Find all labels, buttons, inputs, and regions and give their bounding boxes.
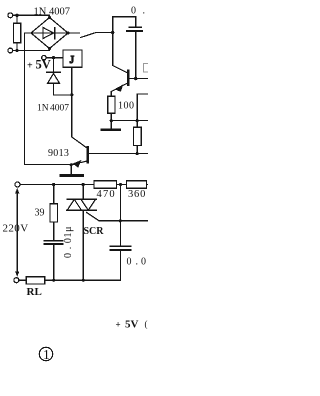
node dot — [52, 279, 55, 282]
capacitor C3 — [110, 245, 130, 247]
node dot — [15, 49, 18, 52]
svg-text:(: ( — [145, 319, 148, 329]
wire (to right edge) — [111, 120, 148, 122]
capacitor C2 0.01u — [44, 240, 62, 242]
node dot — [134, 77, 137, 80]
resistor R3 — [134, 127, 142, 145]
node dot — [70, 93, 73, 96]
switch K lever — [81, 33, 97, 38]
svg-text:0.: 0. — [131, 6, 145, 17]
SCR gate wire — [87, 212, 149, 220]
ground (Q1 emitter) — [70, 165, 72, 175]
svg-text:1N4007: 1N4007 — [34, 7, 71, 18]
resistor R5 360 — [127, 181, 147, 189]
node dot — [119, 183, 122, 186]
svg-text:1: 1 — [43, 347, 50, 362]
wire (top bus) — [20, 184, 148, 186]
svg-text:1N4007: 1N4007 — [37, 104, 69, 114]
wire (bridge minus output, left loop down) — [25, 33, 72, 165]
svg-text:SCR: SCR — [84, 226, 105, 237]
node dot — [82, 279, 85, 282]
wire (right edge feed down) — [137, 94, 148, 127]
node dot — [52, 183, 55, 186]
diode D2 1N4007 (flyback) — [53, 58, 55, 72]
svg-text:0 . 01μ: 0 . 01μ — [63, 226, 74, 258]
wire (+V rail up and over to C1) — [113, 17, 136, 33]
resistor R2 100 — [108, 96, 115, 113]
resistor R-in (input dropping resistor) — [16, 15, 18, 50]
relay coil J — [63, 50, 82, 67]
node dot — [110, 119, 113, 122]
node dot — [119, 219, 122, 222]
bridge rectifier D1 1N4007 (diamond) — [31, 18, 68, 49]
terminal T3 (+5V) — [42, 56, 46, 60]
wire — [13, 49, 50, 51]
svg-text:0.0: 0.0 — [127, 257, 147, 268]
node dot — [111, 31, 114, 34]
node dot — [70, 163, 73, 166]
svg-text:+5V: +5V — [116, 319, 139, 331]
wire (Q1 base line) — [88, 152, 148, 154]
terminal T4 (220V top) — [15, 182, 20, 187]
resistor R4 470 — [94, 181, 117, 189]
resistor R6 39 — [53, 185, 55, 204]
svg-text:220V: 220V — [3, 222, 29, 234]
svg-text:100: 100 — [118, 101, 135, 112]
wire — [13, 15, 50, 17]
node dot — [82, 183, 85, 186]
wire (J bottom to Q1 collector) — [71, 67, 73, 136]
node dot — [52, 56, 55, 59]
component stub at right edge (faint) — [144, 64, 150, 73]
resistor RL — [26, 277, 44, 284]
terminal T2 (AC input bottom) — [8, 48, 13, 53]
ground (below R2) — [102, 128, 120, 130]
svg-text:RL: RL — [27, 286, 42, 298]
svg-text:360: 360 — [128, 189, 146, 200]
wire — [96, 32, 113, 34]
transistor Q1 9013 — [72, 137, 87, 148]
divider line down from R4/R5 node — [119, 185, 121, 246]
terminal T5 (220V bottom) — [14, 278, 19, 283]
terminal T1 (AC input top) — [8, 13, 13, 18]
svg-text:470: 470 — [97, 189, 116, 200]
svg-text:39: 39 — [35, 208, 45, 219]
node dot — [15, 14, 18, 17]
wire (bridge plus output to switch) — [68, 32, 80, 34]
wire (C1 bottom to Q2 base line) — [135, 32, 137, 79]
svg-text:J: J — [70, 54, 75, 66]
wire (Q2 base to right edge) — [129, 78, 148, 80]
node dot — [136, 152, 139, 155]
wire — [46, 57, 63, 59]
svg-text:9013: 9013 — [48, 148, 69, 159]
bottom bus wire — [19, 279, 120, 281]
thyristor SCR (triac symbol) — [82, 185, 84, 200]
220V source arrows — [16, 190, 18, 271]
svg-text:+5V: +5V — [27, 58, 51, 72]
capacitor C1 (top right) — [129, 26, 141, 28]
transistor Q2 — [113, 33, 128, 73]
node dot — [136, 119, 139, 122]
figure number 1 (circled) — [39, 347, 52, 362]
